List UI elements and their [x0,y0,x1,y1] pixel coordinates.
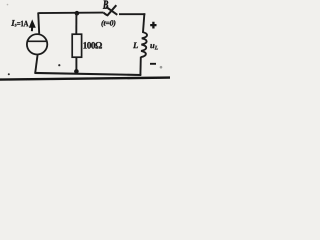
switch cross stroke (X stroke 2) [106,7,117,15]
value label 100ohm [83,42,102,49]
label uL (voltage across inductor) [150,44,154,48]
current source Is circle [27,34,47,54]
polarity minus [150,63,156,65]
polarity plus [150,22,156,29]
stray dot left [8,73,10,75]
current direction arrow (up) beside source [29,19,36,27]
wire: source bottom lead [35,55,37,73]
stray dot right [160,66,163,69]
switch B label [103,1,108,9]
paper background [0,0,170,81]
label L [133,42,138,48]
wire: resistor top lead [75,13,77,34]
wire: right branch top vertical [143,13,144,32]
bar inside source circle [27,40,48,42]
wire: top wire left segment (source to switch) [38,12,103,15]
switch time label (t=0) [101,20,115,27]
wire: resistor bottom lead [75,57,77,71]
faint speck top left [7,4,9,6]
node junction dot (resistor top) [75,11,80,16]
wire: source top lead [38,12,39,33]
page rule line at bottom [0,78,170,80]
wire: bottom wire [34,73,141,75]
stray dot mid [58,64,60,66]
wire: top wire right segment (switch to corner) [119,13,145,15]
switch blade (X stroke 1) [104,5,117,15]
inductor L coil (4 bumps bulging right) [141,32,147,57]
wire: inductor bottom lead [139,57,141,75]
label Is=1A [11,20,15,26]
node junction dot (resistor bottom) [74,69,79,74]
resistor R 100 ohm box [72,34,81,57]
